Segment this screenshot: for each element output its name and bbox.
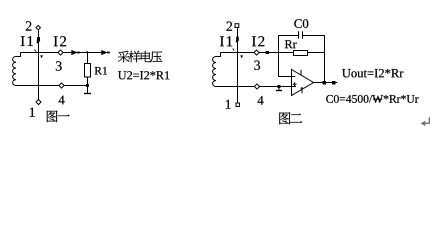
wire bottom horizontal (fig1) [16, 85, 88, 87]
tick at crossing (fig2) [233, 48, 235, 51]
node 3 diamond (fig2) [254, 50, 259, 55]
label 3 (fig2) [254, 61, 260, 70]
op-amp top power stub [300, 70, 302, 76]
arrow right end (fig1) [101, 50, 107, 55]
terminal node 1 diamond (fig1) [36, 100, 41, 105]
node 4 diamond (fig2) [254, 84, 259, 89]
transformer winding (fig2) [216, 53, 221, 57]
junction dot feedback tap [323, 81, 327, 85]
node 4 diamond (fig1) [59, 83, 64, 88]
ground terminator (fig2) [278, 87, 280, 91]
label Rr [285, 40, 297, 48]
arrow right mid (fig1) [71, 50, 77, 55]
label 4 (fig2) [258, 96, 264, 105]
resistor R1 lead top [87, 53, 89, 64]
text U2=I2*R1 [118, 71, 169, 79]
transformer winding (fig1) [16, 53, 21, 57]
op-amp bottom power stub [301, 87, 303, 93]
wire bottom horizontal (fig2) [216, 86, 297, 88]
resistor Rr body [294, 51, 308, 56]
op-amp U1 triangle [292, 70, 314, 96]
return mark (paragraph) [424, 117, 429, 123]
junction dot bottom wire (fig2) [278, 85, 281, 88]
text C0=4500/W*Rr*Ur [326, 95, 418, 103]
wire output (fig2) [314, 82, 338, 84]
label 2 (fig2 top terminal) [227, 22, 233, 31]
text Uout=I2*Rr [342, 69, 403, 77]
label I1 (fig2) [220, 36, 232, 46]
text 采样电压 [118, 51, 162, 62]
resistor R1 body [85, 64, 91, 78]
label 2 (fig1 top terminal) [26, 21, 32, 30]
capacitor C0 plates [298, 31, 300, 38]
junction dot top wire (fig2) [266, 51, 270, 54]
label I2 (fig1) [54, 36, 66, 46]
arrow down small below node (fig2) [240, 55, 243, 58]
capacitor C0 branch left [279, 36, 299, 53]
arrow down small below node (fig1) [40, 55, 43, 58]
wire top horizontal (fig1) [21, 52, 110, 54]
op-amp plus marking [293, 83, 297, 85]
wire vertical main (fig1) [38, 31, 40, 101]
label 4 (fig1) [59, 96, 65, 105]
label I2 (fig2) [252, 36, 264, 46]
wire vertical main (fig2) [237, 28, 239, 102]
junction dot R1/bottom wire (fig1) [86, 84, 89, 87]
current direction mark I2 (fig2) [236, 37, 239, 41]
terminator bar (fig1) [84, 93, 91, 95]
circuit schematic: current transformer sampling, fig1 resistor sampling, fig2 op-amp integrator [0, 0, 440, 146]
resistor R1 lead bottom [87, 77, 89, 93]
node 3 diamond (fig1) [58, 50, 63, 55]
wire Rr to feedback corner [308, 52, 325, 54]
wire top horizontal (fig2) [221, 52, 294, 54]
label 3 (fig1) [56, 61, 62, 70]
label 1 (fig1) [30, 108, 35, 117]
current direction mark I2 (fig1) [37, 37, 40, 41]
caption 图二 [279, 112, 302, 124]
label 1 (fig2) [226, 100, 231, 109]
tick at crossing (fig1) [34, 49, 36, 52]
label R1 [95, 67, 107, 75]
terminal node 2 circle (fig1) [36, 25, 40, 29]
junction dot output [332, 81, 336, 85]
capacitor C0 branch right [303, 36, 325, 83]
wire inverting input (fig2) [279, 53, 296, 77]
terminal node 2 circle (fig2) [235, 24, 239, 28]
terminal node 1 square (fig2) [236, 103, 240, 107]
label C0 [294, 19, 308, 28]
caption 图一 [47, 111, 70, 123]
label I1 (fig1) [21, 36, 33, 46]
